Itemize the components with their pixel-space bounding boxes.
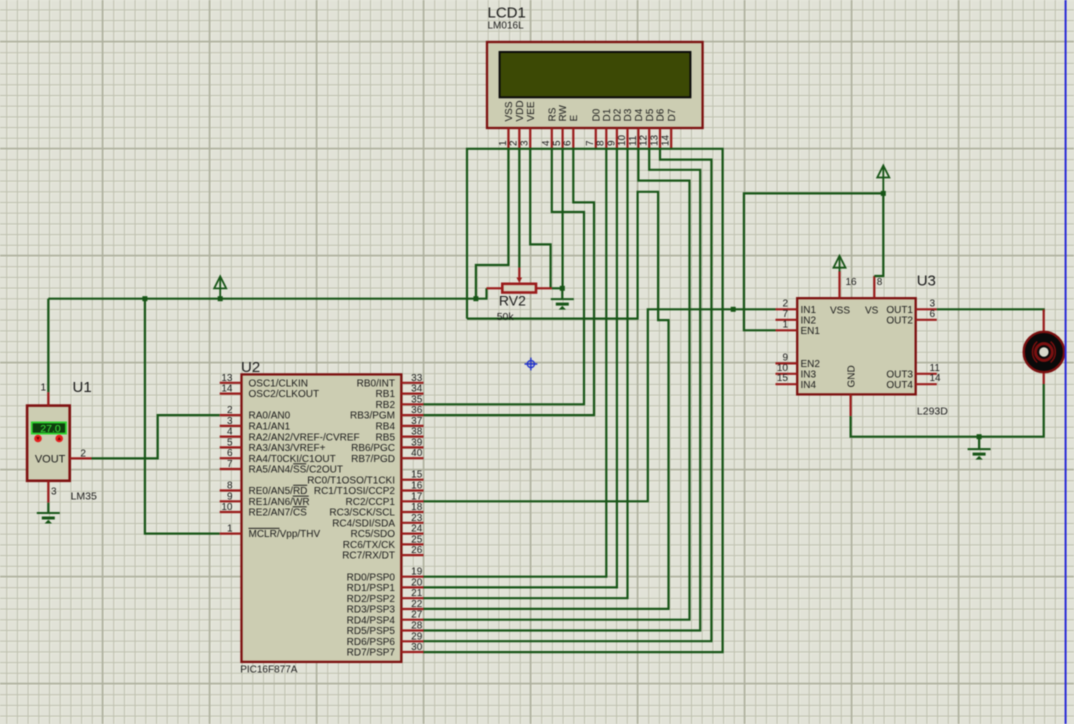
svg-text:16: 16 <box>411 481 423 492</box>
svg-text:28: 28 <box>411 621 423 632</box>
U2 pin 6 stub <box>220 457 242 459</box>
svg-text:30: 30 <box>411 642 423 653</box>
wire net U1 pin1 to rail <box>47 299 49 393</box>
U3 pin 15 stub <box>776 383 798 385</box>
microcontroller U2 body <box>242 374 402 662</box>
U2 pin 30 stub <box>401 651 423 653</box>
wire net VEE-LCD (pin3 to RV2 right) <box>530 149 550 288</box>
wire net MCLR (rail to U2 pin1) <box>145 299 220 534</box>
U2 pin 37 stub <box>401 425 423 427</box>
svg-text:40: 40 <box>411 448 423 459</box>
motor - terminal <box>1043 371 1045 384</box>
svg-text:1: 1 <box>227 524 233 535</box>
junction rail/U1 branch <box>142 296 147 301</box>
svg-text:RD7/PSP7: RD7/PSP7 <box>347 648 396 659</box>
U2 pin 25 stub <box>401 543 423 545</box>
power symbol +5V arrow <box>214 276 226 299</box>
svg-text:OUT4: OUT4 <box>886 380 913 391</box>
svg-text:RC7/RX/DT: RC7/RX/DT <box>342 551 395 562</box>
LCD screen <box>500 52 691 97</box>
motor M1 <box>1024 332 1064 372</box>
svg-text:RD4/PSP4: RD4/PSP4 <box>347 615 396 626</box>
U3 pin 7 stub <box>776 319 798 321</box>
wire U1 pin3 to ground <box>47 503 49 513</box>
svg-text:10: 10 <box>617 134 628 146</box>
svg-text:27: 27 <box>411 610 423 621</box>
U2 pin 3 stub <box>220 425 242 427</box>
svg-text:25: 25 <box>411 534 423 545</box>
LCD1 pin 6 stub <box>572 128 574 149</box>
U1 pin 2 stub <box>70 457 92 459</box>
svg-text:D7: D7 <box>667 108 678 121</box>
U2 pin 40 stub <box>401 457 423 459</box>
LCD1 pin 9 stub <box>616 128 618 149</box>
svg-text:D2: D2 <box>613 108 624 121</box>
svg-text:VDD: VDD <box>515 100 526 121</box>
svg-text:14: 14 <box>930 373 942 384</box>
svg-text:RA4/T0CKI/C1OUT: RA4/T0CKI/C1OUT <box>249 454 336 465</box>
svg-text:D0: D0 <box>591 108 602 121</box>
svg-text:OUT2: OUT2 <box>886 315 913 326</box>
power symbol VSS arrow U3 <box>834 255 846 271</box>
svg-text:11: 11 <box>628 135 639 146</box>
wire net D5 (LCD pin12 to U2 RD5) <box>424 149 701 631</box>
svg-text:3: 3 <box>227 416 233 427</box>
wire net CCP1 (U2 RC2 to U3 IN1) <box>424 309 776 501</box>
svg-text:7: 7 <box>782 309 788 320</box>
svg-text:E: E <box>569 115 580 122</box>
LCD1 pin 13 stub <box>659 128 661 149</box>
svg-text:RE0/AN5/RD: RE0/AN5/RD <box>249 486 308 497</box>
svg-text:16: 16 <box>846 277 858 288</box>
RV2 wiper <box>518 268 520 279</box>
U3 pin 9 stub <box>776 362 798 364</box>
LCD1 pin 12 stub <box>648 128 650 149</box>
LCD1 pin 7 stub <box>595 128 597 149</box>
svg-text:14: 14 <box>221 384 233 395</box>
U3 pin 3 stub <box>916 308 937 310</box>
svg-text:U3: U3 <box>917 273 936 290</box>
svg-text:RC5/SDO: RC5/SDO <box>351 529 396 540</box>
wire net VDD-LCD (pin2 to RV2 wiper) <box>518 149 520 268</box>
wire ground stem RV2 <box>561 288 563 299</box>
U2 pin 28 stub <box>401 629 423 631</box>
svg-text:6: 6 <box>227 448 233 459</box>
U2 pin 5 stub <box>220 446 242 448</box>
svg-text:RA1/AN1: RA1/AN1 <box>249 421 291 432</box>
U3 pin 11 stub <box>916 373 937 375</box>
wire ground stem bottom <box>978 437 980 449</box>
svg-text:RD2/PSP2: RD2/PSP2 <box>347 594 396 605</box>
svg-text:RA3/AN3/VREF+: RA3/AN3/VREF+ <box>249 443 326 454</box>
U2 pin 27 stub <box>401 619 423 621</box>
svg-text:L293D: L293D <box>917 406 948 418</box>
U2 pin 10 stub <box>220 511 242 513</box>
svg-text:9: 9 <box>782 352 788 363</box>
wire net D0 loop (lower run to U2 RD3) <box>424 192 669 609</box>
svg-text:7: 7 <box>227 459 233 470</box>
U2 pin 36 stub <box>401 414 423 416</box>
wire net +5V rail <box>48 298 476 300</box>
svg-text:34: 34 <box>411 384 423 395</box>
U2 pin 15 stub <box>401 479 423 481</box>
svg-text:5: 5 <box>227 437 233 448</box>
svg-text:8: 8 <box>877 277 883 288</box>
svg-text:8: 8 <box>596 140 607 146</box>
svg-text:23: 23 <box>411 513 423 524</box>
ground U1 ground <box>37 513 60 523</box>
U2 pin 17 stub <box>401 500 423 502</box>
svg-text:RC2/CCP1: RC2/CCP1 <box>346 497 396 508</box>
svg-text:RB3/PGM: RB3/PGM <box>350 411 395 422</box>
svg-text:IN4: IN4 <box>801 380 817 391</box>
U3 pin 2 stub <box>776 308 798 310</box>
svg-text:RD5/PSP5: RD5/PSP5 <box>347 626 396 637</box>
svg-text:14: 14 <box>661 134 672 146</box>
U2 pin 35 stub <box>401 403 423 405</box>
U2 pin 34 stub <box>401 393 423 395</box>
junction EN1/VS node <box>881 191 886 196</box>
svg-text:RW: RW <box>558 104 569 121</box>
svg-text:29: 29 <box>411 631 423 642</box>
svg-text:LM35: LM35 <box>71 491 97 503</box>
svg-text:RB1: RB1 <box>376 389 396 400</box>
wire net VSS-LCD (pin1 to +5V rail) <box>476 149 509 299</box>
U2 pin 9 stub <box>220 500 242 502</box>
overbar WR <box>293 495 309 497</box>
U2 pin 8 stub <box>220 489 242 491</box>
overbar SS <box>293 463 306 465</box>
svg-text:RC0/T1OSO/T1CKI: RC0/T1OSO/T1CKI <box>307 475 395 486</box>
U2 pin 7 stub <box>220 468 242 470</box>
wire net RW (LCD pin5 to ground) <box>561 149 563 288</box>
svg-text:13: 13 <box>649 134 660 146</box>
LCD1 pin 8 stub <box>605 128 607 149</box>
svg-text:U1: U1 <box>73 379 92 396</box>
svg-text:RC4/SDI/SDA: RC4/SDI/SDA <box>332 518 395 529</box>
U3 pin 6 stub <box>916 319 937 321</box>
wire net D1 (LCD pin8 to U2 RD0) <box>424 149 607 577</box>
svg-text:RD3/PSP3: RD3/PSP3 <box>347 605 396 616</box>
svg-text:RE1/AN6/WR: RE1/AN6/WR <box>249 497 310 508</box>
U3 pin 1 stub <box>776 329 798 331</box>
svg-text:D1: D1 <box>602 108 613 121</box>
wire net OUT1 to motor <box>937 309 1044 311</box>
wire rail to RV2 left terminal <box>476 288 487 298</box>
svg-text:RD0/PSP0: RD0/PSP0 <box>347 572 396 583</box>
svg-text:36: 36 <box>411 405 423 416</box>
overbar RD <box>293 484 307 486</box>
svg-text:RE2/AN7/CS: RE2/AN7/CS <box>249 508 308 519</box>
svg-text:8: 8 <box>227 481 233 492</box>
junction motor-return/ground node <box>977 434 982 439</box>
svg-text:RA5/AN4/SS/C2OUT: RA5/AN4/SS/C2OUT <box>249 465 343 476</box>
svg-text:MCLR/Vpp/THV: MCLR/Vpp/THV <box>249 529 321 540</box>
svg-text:RC1/T1OSI/CCP2: RC1/T1OSI/CCP2 <box>314 486 396 497</box>
U1 pin 1 stub <box>47 392 49 406</box>
svg-text:VS: VS <box>865 306 879 317</box>
svg-text:21: 21 <box>411 588 423 599</box>
U2 pin 1 stub <box>220 532 242 534</box>
LCD1 pin 10 stub <box>626 128 628 149</box>
svg-text:20: 20 <box>411 577 423 588</box>
svg-text:IN3: IN3 <box>801 369 817 380</box>
U2 pin 18 stub <box>401 511 423 513</box>
junction CCP1/IN1 node <box>731 307 736 312</box>
svg-text:LM016L: LM016L <box>488 21 525 32</box>
U2 pin 38 stub <box>401 436 423 438</box>
U2 pin 22 stub <box>401 608 423 610</box>
wire net motor return to ground <box>851 384 1044 437</box>
svg-text:RA0/AN0: RA0/AN0 <box>249 411 291 422</box>
U2 pin 23 stub <box>401 522 423 524</box>
sheet border line <box>1065 0 1067 724</box>
svg-text:IN2: IN2 <box>801 315 817 326</box>
wire net D7 (LCD pin14 top run to U2 RD7) <box>424 149 723 652</box>
U2 pin 21 stub <box>401 597 423 599</box>
junction RV2/ground node <box>560 286 565 291</box>
svg-text:19: 19 <box>411 567 423 578</box>
svg-text:35: 35 <box>411 394 423 405</box>
svg-text:27.0: 27.0 <box>40 423 61 435</box>
svg-text:39: 39 <box>411 437 423 448</box>
wire net RS (LCD pin4 to U2 RB2) <box>424 149 585 404</box>
svg-text:RC6/TX/CK: RC6/TX/CK <box>343 540 396 551</box>
svg-text:VSS: VSS <box>504 101 515 121</box>
svg-text:9: 9 <box>227 491 233 502</box>
U1 pin 3 stub <box>47 481 49 503</box>
svg-text:D4: D4 <box>634 108 645 121</box>
svg-text:9: 9 <box>606 140 617 146</box>
LCD1 pin 5 stub <box>561 128 563 149</box>
svg-text:38: 38 <box>411 427 423 438</box>
power symbol +V arrow U3 <box>877 165 889 193</box>
svg-text:7: 7 <box>585 140 596 146</box>
U2 pin 13 stub <box>220 382 242 384</box>
LCD1 pin 3 stub <box>529 128 531 149</box>
svg-text:OSC2/CLKOUT: OSC2/CLKOUT <box>249 389 320 400</box>
U1 down button <box>34 435 42 443</box>
svg-text:3: 3 <box>930 298 936 309</box>
svg-text:OUT1: OUT1 <box>886 305 913 316</box>
svg-text:GND: GND <box>846 365 857 387</box>
svg-text:10: 10 <box>221 502 233 513</box>
svg-text:U2: U2 <box>241 359 260 376</box>
U1 up button <box>55 435 63 443</box>
svg-text:RA2/AN2/VREF-/CVREF: RA2/AN2/VREF-/CVREF <box>249 432 360 443</box>
origin marker <box>525 358 538 371</box>
wire net D3 (LCD pin10 to U2 RD2) <box>424 149 628 598</box>
U2 pin 14 stub <box>220 393 242 395</box>
svg-text:15: 15 <box>411 470 423 481</box>
LCD1 pin 2 stub <box>518 128 520 149</box>
svg-text:26: 26 <box>411 545 423 556</box>
wire net EN1/VS (+V) <box>744 193 883 330</box>
svg-text:17: 17 <box>411 491 423 502</box>
U2 pin 19 stub <box>401 576 423 578</box>
transducer U1 body <box>27 406 70 481</box>
svg-text:1: 1 <box>40 383 46 394</box>
wire net D6 (LCD pin13 to U2 RD6) <box>424 149 712 641</box>
svg-text:22: 22 <box>411 599 423 610</box>
U3 pin 14 stub <box>916 383 937 385</box>
U3 VS pin 8 stub <box>873 276 875 298</box>
svg-text:2: 2 <box>227 405 233 416</box>
driver U3 body <box>797 298 916 394</box>
svg-text:RB0/INT: RB0/INT <box>357 378 395 389</box>
svg-text:13: 13 <box>221 373 233 384</box>
ground RV2 ground <box>551 299 574 309</box>
LCD1 pin 1 stub <box>507 128 509 149</box>
svg-text:RB5: RB5 <box>376 432 396 443</box>
svg-text:D5: D5 <box>645 108 656 121</box>
svg-text:IN1: IN1 <box>801 305 817 316</box>
U2 pin 20 stub <box>401 586 423 588</box>
svg-text:1: 1 <box>782 319 788 330</box>
svg-text:4: 4 <box>541 140 552 146</box>
svg-text:12: 12 <box>639 134 650 146</box>
svg-text:3: 3 <box>520 140 531 146</box>
U2 pin 29 stub <box>401 640 423 642</box>
svg-text:6: 6 <box>563 140 574 146</box>
svg-text:D6: D6 <box>656 108 667 121</box>
svg-text:RB7/PGD: RB7/PGD <box>351 454 395 465</box>
ground motor ground <box>968 449 991 459</box>
svg-text:1: 1 <box>498 140 509 146</box>
svg-text:10: 10 <box>777 363 789 374</box>
U3 GND pin stub <box>849 394 851 416</box>
wire net D4 (LCD pin11 to U2 RD4) <box>424 149 690 620</box>
svg-text:5: 5 <box>552 140 563 146</box>
svg-text:RB6/PGC: RB6/PGC <box>351 443 395 454</box>
svg-text:6: 6 <box>930 309 936 320</box>
svg-text:PIC16F877A: PIC16F877A <box>240 665 298 676</box>
U3 VSS pin 16 stub <box>838 271 840 298</box>
motor + terminal <box>1043 310 1045 332</box>
svg-text:RB4: RB4 <box>376 421 396 432</box>
resistor RV2 body <box>502 284 536 293</box>
svg-text:VEE: VEE <box>526 101 537 121</box>
svg-text:11: 11 <box>930 363 941 374</box>
svg-text:RS: RS <box>547 107 558 121</box>
svg-text:RD6/PSP6: RD6/PSP6 <box>347 637 396 648</box>
svg-text:VSS: VSS <box>830 306 850 317</box>
overbar CS <box>293 506 307 508</box>
U2 pin 33 stub <box>401 382 423 384</box>
svg-text:D3: D3 <box>623 108 634 121</box>
svg-text:EN2: EN2 <box>801 359 821 370</box>
svg-text:EN1: EN1 <box>801 326 821 337</box>
svg-text:LCD1: LCD1 <box>488 4 526 21</box>
svg-text:2: 2 <box>509 140 520 146</box>
svg-text:RB2: RB2 <box>376 400 396 411</box>
wire RV2 right to ground node <box>552 287 562 289</box>
svg-text:2: 2 <box>80 449 86 460</box>
svg-text:2: 2 <box>782 298 788 309</box>
svg-text:OUT3: OUT3 <box>886 369 913 380</box>
svg-text:50k: 50k <box>497 311 515 323</box>
svg-text:24: 24 <box>411 524 423 535</box>
junction rail/power <box>218 296 223 301</box>
LCD LCD1 <box>487 42 703 128</box>
RV2 wiper arrowhead <box>517 278 523 284</box>
U2 pin 2 stub <box>220 414 242 416</box>
LCD1 pin 4 stub <box>551 128 553 149</box>
U3 pin 10 stub <box>776 373 798 375</box>
U2 pin 26 stub <box>401 554 423 556</box>
wire net VOUT (U1 pin2 to U2 RA0) <box>92 415 220 458</box>
svg-text:33: 33 <box>411 373 423 384</box>
svg-text:37: 37 <box>411 416 423 427</box>
LCD1 pin 11 stub <box>637 128 639 149</box>
RV2 left terminal <box>487 287 503 289</box>
svg-text:RC3/SCK/SCL: RC3/SCK/SCL <box>329 508 395 519</box>
svg-text:RD1/PSP1: RD1/PSP1 <box>347 583 396 594</box>
U2 pin 4 stub <box>220 436 242 438</box>
overbar MCLR <box>249 527 280 529</box>
wire net D2 (LCD pin9 to U2 RD1) <box>424 149 617 587</box>
svg-text:RV2: RV2 <box>499 292 526 308</box>
wire net E (LCD pin6 to U2 RB3) <box>424 149 595 415</box>
svg-text:15: 15 <box>777 373 789 384</box>
svg-text:18: 18 <box>411 502 423 513</box>
RV2 right terminal <box>536 287 552 289</box>
svg-text:VOUT: VOUT <box>35 454 66 466</box>
U1 display frame <box>32 422 66 433</box>
junction rail/VEE <box>473 296 478 301</box>
U2 pin 39 stub <box>401 446 423 448</box>
svg-text:4: 4 <box>227 427 233 438</box>
U2 pin 24 stub <box>401 532 423 534</box>
U2 pin 16 stub <box>401 489 423 491</box>
LCD1 pin 14 stub <box>670 128 672 149</box>
svg-text:OSC1/CLKIN: OSC1/CLKIN <box>249 378 308 389</box>
svg-text:3: 3 <box>51 487 57 498</box>
